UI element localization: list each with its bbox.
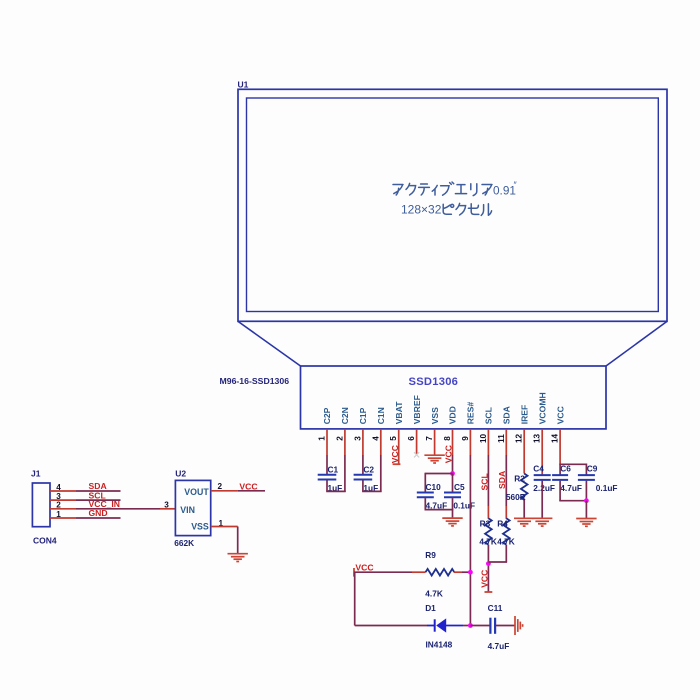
wire: R3 bottom to VCC junction — [487, 545, 489, 592]
resistor R2 — [521, 474, 528, 500]
sideways ground at C11 — [514, 616, 516, 635]
power port VCC bar below pull-ups — [485, 591, 493, 593]
svg-text:0.1uF: 0.1uF — [596, 483, 618, 493]
display text line 2: pixels (katakana) — [443, 203, 491, 215]
wire: net SCL from J1 — [76, 499, 121, 501]
pin 9 wire stub — [469, 429, 471, 455]
wire: left branch down from VCC — [354, 572, 356, 625]
wire: pin 13 to C4 — [541, 455, 543, 475]
svg-text:14: 14 — [551, 434, 560, 444]
svg-text:C5: C5 — [454, 482, 465, 492]
wire: C6 bottom right to C9 bottom junction — [559, 481, 561, 501]
svg-text:C10: C10 — [426, 482, 442, 492]
wire: C5 bottom to ground — [452, 498, 454, 518]
svg-text:U1: U1 — [238, 80, 249, 90]
svg-text:IN4148: IN4148 — [426, 640, 453, 650]
wire: U2 VSS down to ground — [237, 527, 239, 554]
wire: VCC net from U2 VOUT — [238, 490, 265, 492]
wire: C11 to ground — [496, 625, 515, 627]
svg-text:662K: 662K — [174, 538, 194, 548]
capacitor C9 — [578, 474, 595, 476]
junction R9 / RES# — [468, 570, 473, 575]
svg-text:4: 4 — [56, 483, 61, 492]
pin 2 wire stub — [344, 429, 346, 455]
header J1 pin 2 stub — [50, 508, 76, 510]
header J1 pin 3 stub — [50, 499, 76, 501]
resistor R4 — [503, 518, 510, 544]
pin 13 wire stub — [541, 429, 543, 455]
svg-text:VCC: VCC — [555, 406, 565, 424]
svg-text:2: 2 — [218, 482, 223, 491]
svg-text:0.1uF: 0.1uF — [453, 501, 475, 511]
wire: D1 to RES#/C11 junction — [463, 625, 471, 627]
svg-text:C1: C1 — [328, 464, 339, 474]
ground below C6/C9 — [576, 518, 596, 520]
svg-text:SDA: SDA — [502, 406, 512, 424]
svg-text:VCC: VCC — [239, 481, 257, 491]
header J1 pin 1 stub — [50, 517, 76, 519]
wire: pin 12 to R2 — [523, 455, 525, 474]
pin 8 wire stub — [452, 429, 454, 455]
wire: pin 11 down to R4 — [505, 455, 507, 506]
OLED display U1 outer outline — [238, 89, 667, 321]
wire: junction to ground — [585, 501, 587, 519]
junction on VDD net — [450, 471, 455, 476]
resistor R3 — [485, 518, 492, 544]
junction below C9 — [584, 498, 589, 503]
svg-text:6: 6 — [407, 436, 416, 441]
svg-text:3: 3 — [56, 492, 61, 501]
wire: junction to C11 — [471, 625, 490, 627]
svg-text:4.7uF: 4.7uF — [560, 483, 582, 493]
svg-text:VIN: VIN — [180, 505, 195, 515]
svg-text:M96-16-SSD1306: M96-16-SSD1306 — [220, 376, 290, 386]
svg-text:R9: R9 — [425, 550, 436, 560]
wire: C1 bottom to pin 2 — [326, 480, 328, 491]
svg-text:C2: C2 — [363, 464, 374, 474]
svg-text:2: 2 — [56, 501, 61, 510]
diode D1 triangle — [436, 618, 446, 632]
pin 1 wire stub — [326, 429, 328, 455]
svg-text:VCC: VCC — [480, 570, 490, 588]
svg-text:2: 2 — [335, 436, 344, 441]
wire: junction down to C5 — [452, 474, 454, 493]
pin 14 wire stub — [559, 429, 561, 455]
no-connect mark at pin 6 — [414, 452, 419, 457]
svg-text:560R: 560R — [506, 492, 526, 502]
capacitor C1 — [318, 474, 337, 476]
svg-text:C2P: C2P — [322, 407, 332, 424]
display text line 1: active area 0.91" (katakana) — [393, 182, 492, 196]
ground below C5/C10 — [442, 517, 462, 519]
wire: pin 1 to C1 — [326, 455, 328, 475]
svg-text:R2: R2 — [514, 473, 525, 483]
wire: pin 10 down to R3 — [487, 455, 489, 506]
power port VCC bar at R9 input — [353, 568, 355, 577]
wire: pin 14 down and right to C9 branch — [559, 455, 561, 464]
svg-text:2.2uF: 2.2uF — [533, 483, 555, 493]
wire: bottom branch to D1 — [355, 625, 427, 627]
svg-text:C6: C6 — [560, 464, 571, 474]
wire: pin 3 to C2 — [362, 455, 364, 475]
svg-text:SDA: SDA — [497, 471, 507, 489]
svg-text:8: 8 — [443, 436, 452, 441]
svg-text:VOUT: VOUT — [184, 487, 209, 497]
svg-text:9: 9 — [461, 436, 470, 441]
header J1 pin 4 stub — [50, 490, 76, 492]
header J1 body — [32, 483, 50, 527]
capacitor C6 — [552, 474, 568, 476]
svg-text:C2N: C2N — [340, 407, 350, 424]
svg-text:D1: D1 — [425, 603, 436, 613]
capacitor C11 plates — [489, 618, 491, 634]
resistor R9 — [426, 569, 455, 576]
svg-text:GND: GND — [89, 508, 108, 518]
svg-text:VSS: VSS — [430, 407, 440, 424]
capacitor C5 — [444, 492, 461, 494]
junction of pull-ups on VCC — [486, 561, 491, 566]
svg-text:VDD: VDD — [448, 406, 458, 424]
pin 6 wire stub — [416, 429, 418, 455]
wire: net VCC_IN from J1 — [76, 508, 160, 510]
svg-text:VBAT: VBAT — [394, 401, 404, 425]
wire: pin 14 branch down to C6 — [559, 464, 561, 475]
capacitor C4 — [534, 474, 551, 476]
svg-text:1: 1 — [56, 510, 61, 519]
svg-text:128×32: 128×32 — [401, 203, 442, 217]
capacitor C10 — [417, 492, 434, 494]
pin 5 wire stub — [398, 429, 400, 464]
wire: RES# net pin 9 down to D1 — [469, 455, 471, 626]
diode D1 cathode bar — [434, 619, 436, 631]
wire: U2 VOUT pin 2 stub — [211, 490, 238, 492]
OLED display U1 active-area inner outline — [247, 98, 659, 312]
wire: net GND from J1 — [76, 517, 121, 519]
ground at pin 7 VSS — [424, 454, 444, 456]
svg-text:7: 7 — [425, 436, 434, 441]
svg-text:5: 5 — [389, 436, 398, 441]
wire: R2 bottom to ground — [523, 500, 525, 518]
svg-text:1: 1 — [318, 436, 327, 441]
svg-text:VCOMH: VCOMH — [537, 392, 547, 424]
svg-text:VCC: VCC — [390, 445, 400, 463]
pin 7 wire stub — [434, 429, 436, 455]
wire: C10 bottom to C5 bottom — [424, 498, 426, 510]
svg-text:VSS: VSS — [191, 522, 209, 532]
svg-text:12: 12 — [515, 434, 524, 444]
svg-text:C11: C11 — [488, 603, 503, 613]
junction D1 / RES# / C11 — [468, 623, 473, 628]
capacitor C2 — [354, 474, 373, 476]
svg-text:VCC: VCC — [355, 563, 373, 573]
wire: right diagonal from display to connector — [606, 321, 667, 366]
svg-text:3: 3 — [353, 436, 362, 441]
svg-text:VBREF: VBREF — [412, 395, 422, 424]
wire: VCC to R9 — [354, 571, 412, 573]
wire: VCC_IN net to U2 VIN — [160, 508, 175, 510]
pin 11 wire stub — [505, 429, 507, 455]
wire: pin 8 down to junction — [452, 455, 454, 474]
svg-text:C1P: C1P — [358, 407, 368, 424]
svg-text:SCL: SCL — [484, 407, 494, 424]
ground below U2 VSS — [228, 553, 248, 555]
svg-text:4: 4 — [371, 436, 380, 441]
wire: C4 bottom to ground — [541, 481, 543, 519]
svg-text:3: 3 — [164, 501, 169, 510]
wire: R9 to RES# junction — [454, 571, 462, 573]
svg-text:CON4: CON4 — [33, 536, 57, 546]
svg-text:″: ″ — [514, 180, 518, 190]
svg-text:RES#: RES# — [466, 402, 476, 425]
svg-text:C1N: C1N — [376, 407, 386, 424]
connector body M96-16-SSD1306 — [301, 366, 607, 429]
svg-text:4.7uF: 4.7uF — [488, 641, 510, 651]
wire: left diagonal from display to connector — [238, 321, 301, 366]
wire: C2 bottom to pin 4 — [362, 480, 364, 491]
svg-text:IREF: IREF — [519, 405, 529, 425]
diode D1 leads — [427, 625, 435, 627]
regulator U2 body — [175, 480, 210, 535]
svg-text:4.7K: 4.7K — [425, 588, 443, 598]
pin 3 wire stub — [362, 429, 364, 455]
wire: net SDA from J1 — [76, 490, 121, 492]
ground below C4 — [532, 517, 552, 519]
ground below R2 — [514, 517, 534, 519]
pin 12 wire stub — [523, 429, 525, 455]
svg-text:10: 10 — [479, 434, 488, 444]
wire: R4 bottom left to junction — [505, 545, 507, 562]
svg-text:13: 13 — [533, 434, 542, 444]
pin 4 wire stub — [380, 429, 382, 455]
svg-text:R4: R4 — [497, 518, 508, 528]
wire: junction left and down to C10 — [425, 473, 452, 475]
svg-text:J1: J1 — [31, 469, 41, 479]
svg-text:C4: C4 — [533, 464, 544, 474]
svg-text:11: 11 — [497, 434, 506, 443]
power port VCC at pin 5 (bar) — [393, 463, 401, 465]
svg-text:R3: R3 — [480, 518, 491, 528]
pin 10 wire stub — [487, 429, 489, 455]
svg-text:SSD1306: SSD1306 — [409, 376, 459, 388]
svg-text:U2: U2 — [175, 469, 186, 479]
wire: U2 VSS pin 1 stub — [211, 526, 238, 528]
svg-text:C9: C9 — [587, 464, 598, 474]
